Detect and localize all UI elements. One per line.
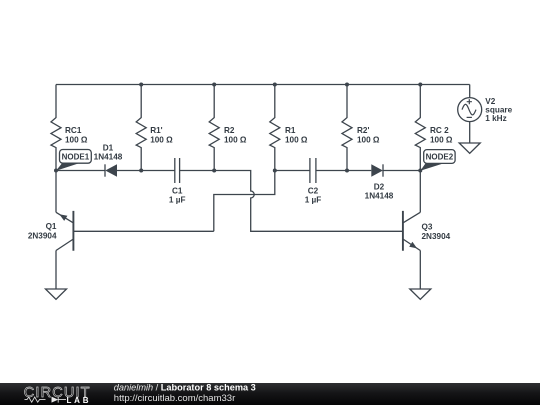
- svg-text:R1': R1': [150, 126, 162, 135]
- svg-text:danielmih / Laborator 8 schema: danielmih / Laborator 8 schema 3: [114, 383, 256, 393]
- svg-text:RC1: RC1: [65, 126, 82, 135]
- svg-text:100 Ω: 100 Ω: [430, 135, 453, 144]
- svg-text:1N4148: 1N4148: [365, 192, 394, 201]
- svg-text:D2: D2: [374, 183, 385, 192]
- svg-text:1 kHz: 1 kHz: [485, 114, 506, 123]
- svg-text:1N4148: 1N4148: [94, 153, 123, 162]
- svg-text:D1: D1: [103, 144, 114, 153]
- svg-text:RC 2: RC 2: [430, 126, 449, 135]
- svg-text:R2: R2: [224, 126, 235, 135]
- svg-text:100 Ω: 100 Ω: [285, 135, 308, 144]
- svg-text:R1: R1: [285, 126, 296, 135]
- svg-text:C1: C1: [172, 186, 183, 195]
- svg-text:NODE1: NODE1: [62, 152, 90, 161]
- svg-text:1 µF: 1 µF: [305, 196, 322, 205]
- svg-text:100 Ω: 100 Ω: [224, 135, 247, 144]
- svg-text:C2: C2: [308, 186, 319, 195]
- svg-text:1 µF: 1 µF: [169, 196, 186, 205]
- svg-text:http://circuitlab.com/cham33r: http://circuitlab.com/cham33r: [114, 393, 235, 404]
- svg-text:Q1: Q1: [46, 222, 57, 231]
- svg-text:100 Ω: 100 Ω: [65, 135, 88, 144]
- svg-text:Q3: Q3: [422, 223, 433, 232]
- svg-text:100 Ω: 100 Ω: [150, 135, 173, 144]
- svg-text:2N3904: 2N3904: [28, 232, 57, 241]
- svg-text:100 Ω: 100 Ω: [357, 135, 380, 144]
- svg-text:LAB: LAB: [67, 396, 92, 405]
- svg-text:NODE2: NODE2: [426, 152, 454, 161]
- svg-text:2N3904: 2N3904: [422, 232, 451, 241]
- svg-text:R2': R2': [357, 126, 369, 135]
